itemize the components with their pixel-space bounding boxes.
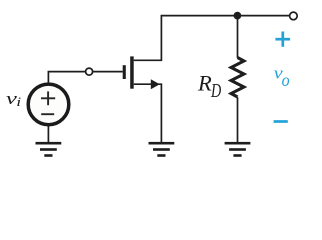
svg-text:D: D: [210, 78, 221, 101]
svg-text:i: i: [16, 96, 21, 109]
svg-text:o: o: [282, 70, 290, 90]
svg-text:R: R: [197, 71, 212, 96]
